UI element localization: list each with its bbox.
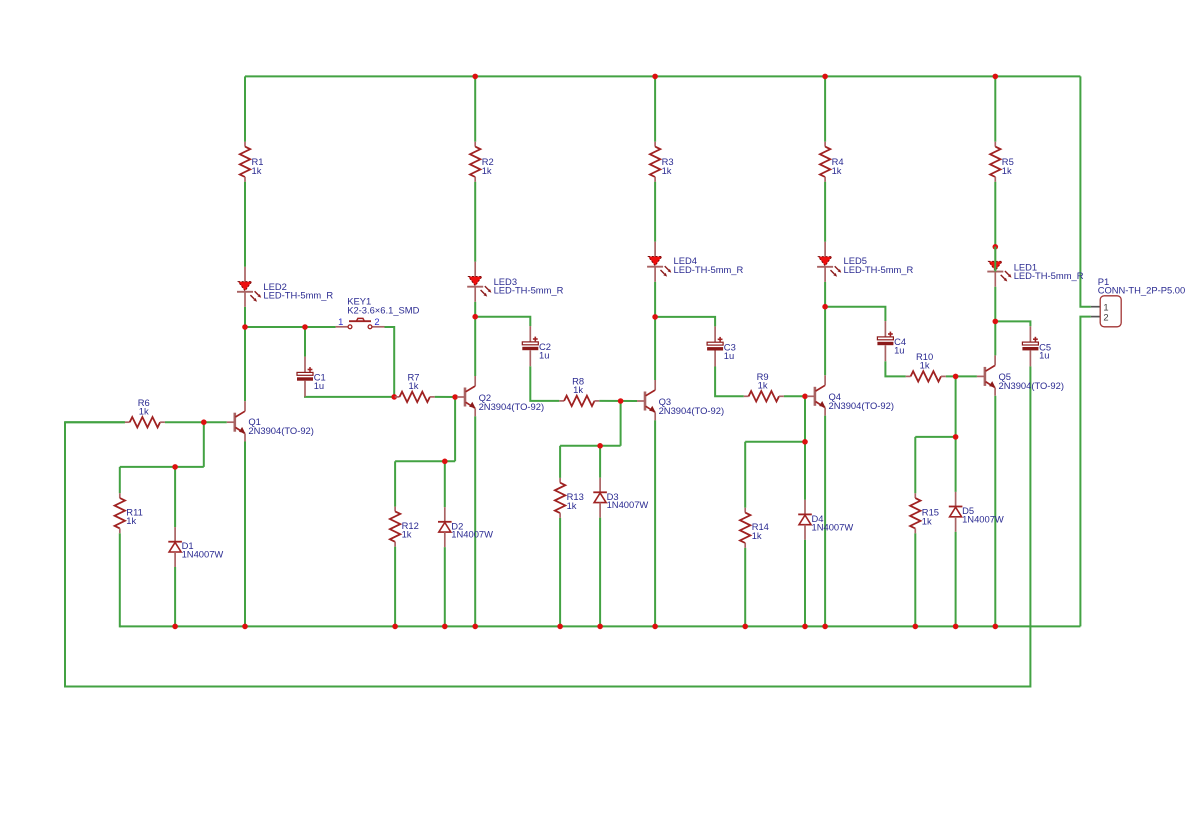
connector P1 [1091,296,1121,327]
wire node1 to KEY1 [245,326,336,328]
LED LED4 [647,242,671,282]
svg-text:1k: 1k [252,165,262,176]
junction row 4 [802,439,808,445]
svg-text:2: 2 [374,316,379,327]
junction base Q4 [802,394,808,400]
label LED3 [494,276,564,295]
pin number KEY1-1 [338,316,343,327]
svg-text:1N4007W: 1N4007W [607,499,649,510]
junction base Q5 [953,374,959,380]
resistor R13 [555,478,565,518]
junction GND rail [597,624,603,630]
svg-text:LED-TH-5mm_R: LED-TH-5mm_R [263,290,333,301]
svg-text:1: 1 [338,316,343,327]
svg-text:CONN-TH_2P-P5.00: CONN-TH_2P-P5.00 [1098,284,1186,295]
svg-text:LED-TH-5mm_R: LED-TH-5mm_R [674,264,744,275]
junction KEY1/R7 node [391,394,397,400]
label D1 1N4007W [182,540,224,559]
wire P1 pin2 to GND [1080,317,1090,627]
wire emitter Q2 to GND [474,416,476,626]
wire VCC to P1 pin1 [1080,76,1090,306]
wire D5 top [955,437,957,492]
wire collector Q5 [994,321,996,355]
wire col5 LED to node [994,287,996,322]
wire D3 top [599,446,601,478]
label Q1 2N3904(TO-92) [248,416,313,436]
svg-text:2N3904(TO-92): 2N3904(TO-92) [248,425,313,436]
pin number P1-2 [1103,312,1108,323]
wire col2 LED to node [474,302,476,317]
wire base4 drop [804,396,806,442]
junction GND rail [802,624,808,630]
transistor Q4 [807,375,825,415]
wire R12 top [394,461,396,506]
resistor R3 [650,142,660,182]
junction C1 tap [302,324,308,330]
svg-text:1u: 1u [894,345,904,356]
svg-text:1N4007W: 1N4007W [962,513,1004,524]
svg-text:1u: 1u [724,350,734,361]
resistor R14 [740,508,750,548]
resistor R7 [395,392,435,402]
wire LED1 overlay segment [994,247,996,272]
junction row 3 [597,443,603,449]
resistor R9 [744,391,784,401]
resistor R4 [820,142,830,182]
label R7 1k [408,372,420,391]
junction GND rail [742,624,748,630]
wire R7 to Q1? base Q2 [435,396,457,398]
wire col4 rail to R4 [824,76,826,141]
svg-text:LED-TH-5mm_R: LED-TH-5mm_R [1014,270,1084,281]
junction GND rail [913,624,919,630]
junction GND rail [472,624,478,630]
svg-text:1k: 1k [1002,165,1012,176]
junction top rail col2 [472,74,478,80]
junction GND rail [953,624,959,630]
resistor R11 [115,493,125,533]
label R15 1k [922,507,939,527]
wire col3 rail to R3 [654,76,656,141]
junction row 1 [172,464,178,470]
wire pulldown row 4 [745,441,805,443]
junction GND rail [652,624,658,630]
junction top rail col5 [993,74,999,80]
wire R9 to base Q4 [784,395,807,397]
wire emitter Q5 to GND [994,396,996,627]
label R2 1k [482,156,494,176]
resistor R12 [390,507,400,547]
wire GND bottom rail [120,625,1081,627]
wire col5 R5 to LED [994,182,996,247]
junction LED1 node [993,319,999,325]
junction LED3 node [472,314,478,320]
switch KEY1 [336,318,385,328]
label Q2 2N3904(TO-92) [479,392,544,412]
wire R14 top [744,442,746,508]
label R4 1k [832,156,844,176]
diode D4 [798,500,812,540]
wire R12 bottom [394,547,396,627]
wire R15 bottom [914,533,916,626]
wire loop to R6 [65,421,125,423]
transistor Q3 [637,380,655,420]
svg-text:2N3904(TO-92): 2N3904(TO-92) [829,400,894,411]
wire emitter Q1 to GND [244,442,246,627]
resistor R8 [559,396,599,406]
junction top rail col4 [822,74,828,80]
diode D2 [438,507,452,547]
junction GND rail [242,624,248,630]
wire col1 rail to R1 [244,76,246,141]
label LED4 [674,255,744,275]
label Q4 2N3904(TO-92) [829,391,894,411]
svg-text:LED-TH-5mm_R: LED-TH-5mm_R [844,264,914,275]
label R1 1k [252,156,264,176]
svg-text:2: 2 [1103,312,1108,323]
svg-text:1k: 1k [662,165,672,176]
wire D4 bottom [804,540,806,627]
wire D2 bottom [444,547,446,626]
svg-text:1k: 1k [922,515,932,526]
wire R13 bottom [559,518,561,627]
svg-text:1k: 1k [832,165,842,176]
wire R6 to base Q1 [165,421,227,423]
junction base Q2 [452,394,458,400]
wire D2 top [444,461,446,507]
capacitor C3 [707,326,723,366]
svg-text:1k: 1k [920,360,930,371]
resistor R2 [470,142,480,182]
svg-text:1k: 1k [752,530,762,541]
wire base1 drop [203,422,205,467]
label LED1 [1014,262,1084,281]
junction GND rail [822,624,828,630]
label D5 1N4007W [962,505,1004,524]
svg-text:1N4007W: 1N4007W [451,529,493,540]
transistor Q2 [457,376,475,416]
transistor Q1 [227,401,245,441]
wire base3 drop [620,401,622,446]
diode D3 [593,478,607,518]
capacitor C2 [522,326,538,366]
label R10 1k [916,351,933,370]
label C4 1u [894,336,906,355]
label LED2 [263,281,333,300]
label R3 1k [662,156,674,176]
junction GND rail [172,624,178,630]
transistor Q5 [977,355,995,395]
junction row 5 [953,434,959,440]
wire node2 to C2 [475,317,530,326]
resistor R10 [906,371,946,381]
label C2 1u [539,341,551,360]
wire base5 drop [955,376,957,437]
capacitor C5 [1022,326,1038,366]
junction LED2 node [242,324,248,330]
label R12 1k [402,520,419,540]
wire col3 R3 to LED [654,182,656,242]
wire pulldown row 5 [915,436,955,438]
resistor R5 [990,142,1000,182]
svg-text:2N3904(TO-92): 2N3904(TO-92) [659,405,724,416]
wire C3 bottom to R9 [715,367,744,397]
wire C4 bottom to R10 [885,361,905,376]
wire C1 bottom to R7 [305,396,394,397]
wire pulldown row 2 [395,460,455,462]
svg-text:2N3904(TO-92): 2N3904(TO-92) [479,401,544,412]
junction LED5 node [822,304,828,310]
wire KEY1 to corner [385,327,395,397]
wire node3 to C3 [655,317,715,327]
svg-text:1N4007W: 1N4007W [182,549,224,560]
svg-text:K2-3.6×6.1_SMD: K2-3.6×6.1_SMD [347,304,419,315]
LED LED1 [987,247,1011,287]
LED LED3 [467,262,491,302]
label R11 1k [126,506,143,526]
wire col3 LED to node [654,282,656,317]
svg-text:1k: 1k [126,515,136,526]
wire col1 LED to node [244,307,246,327]
wire VCC top rail [245,75,1080,77]
svg-text:1u: 1u [314,380,324,391]
wire C1 top [304,327,306,357]
wire R10 to base Q5 [946,375,977,377]
wire collector Q4 [824,307,826,376]
wire D1 bottom [174,567,176,626]
wire col1 R1 to LED [244,182,246,267]
junction top rail col3 [652,74,658,80]
wire col5 rail to R5 [994,76,996,141]
pin number KEY1-2 [374,316,379,327]
svg-text:1k: 1k [758,380,768,391]
wire C2 bottom to R8 [530,366,559,401]
label C5 1u [1039,341,1051,360]
label R8 1k [572,376,584,395]
junction base Q1 [201,419,207,425]
label R9 1k [757,371,769,390]
junction GND rail [557,624,563,630]
capacitor C1 [297,357,313,397]
wire D3 bottom [599,518,601,627]
junction GND rail [392,624,398,630]
svg-text:1k: 1k [139,405,149,416]
wire col4 R4 to LED [824,182,826,242]
label D3 1N4007W [607,491,649,510]
wire R11 bottom to GND corner [120,533,121,626]
resistor R6 [125,417,165,427]
label P1 CONN-TH_2P-P5.00 [1098,276,1186,295]
junction above LED1 [993,244,999,250]
wire node5 to C5 [995,321,1030,326]
wire collector Q2 [474,317,476,376]
svg-text:1k: 1k [573,384,583,395]
label C1 1u [314,372,326,391]
wire R15 top [914,437,916,493]
junction row 2 [442,459,448,465]
wire D5 bottom [955,532,957,627]
wire pulldown row 3 [560,445,621,447]
svg-text:1u: 1u [1039,350,1049,361]
wire pulldown row 1 [120,466,204,468]
junction GND rail [442,624,448,630]
junction base Q3 [618,398,624,404]
label LED5 [844,255,914,275]
diode D5 [949,492,963,532]
wire collector Q3 [654,317,656,380]
svg-text:1k: 1k [409,380,419,391]
label R5 1k [1002,156,1014,176]
svg-text:1k: 1k [402,529,412,540]
label Q5 2N3904(TO-92) [999,371,1064,391]
junction GND rail [993,624,999,630]
wire base2 drop [454,397,456,461]
LED LED5 [817,242,841,282]
wire col4 LED to node [824,282,826,307]
wire outer feedback loop [65,366,1030,686]
svg-text:1k: 1k [482,165,492,176]
wire col2 rail to R2 [474,76,476,141]
wire D4 top [804,442,806,500]
capacitor C4 [877,321,893,361]
wire node4 to C4 [825,307,885,321]
label Q3 2N3904(TO-92) [659,396,724,416]
pin number P1-1 [1103,301,1108,312]
label R6 1k [138,397,150,416]
svg-text:1k: 1k [567,500,577,511]
wire R11 top [119,467,121,493]
wire R14 bottom [744,548,746,627]
label C3 1u [724,341,736,360]
label D2 1N4007W [451,520,493,539]
wire emitter Q4 to GND [824,416,826,627]
svg-text:1N4007W: 1N4007W [812,521,854,532]
junction LED4 node [652,314,658,320]
wire D1 top [174,467,176,527]
resistor R15 [910,493,920,533]
wire collector Q1 [244,327,246,401]
wire R13 top [559,446,561,478]
LED LED2 [237,267,261,307]
label R14 1k [752,521,769,541]
wire R8 to base Q3 [599,400,637,402]
label D4 1N4007W [812,513,854,532]
label R13 1k [567,491,584,511]
resistor R1 [240,142,250,182]
label KEY1 K2-3.6x6.1_SMD [347,296,419,316]
svg-text:2N3904(TO-92): 2N3904(TO-92) [999,380,1064,391]
wire emitter Q3 to GND [654,420,656,626]
svg-text:LED-TH-5mm_R: LED-TH-5mm_R [494,284,564,295]
svg-text:1u: 1u [539,350,549,361]
wire col2 R2 to LED [474,182,476,262]
diode D1 [168,527,182,567]
